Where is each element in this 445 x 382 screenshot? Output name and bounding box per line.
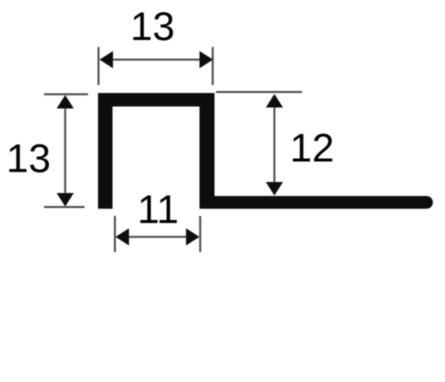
- svg-text:12: 12: [290, 127, 335, 171]
- svg-text:11: 11: [137, 188, 179, 232]
- svg-text:13: 13: [130, 5, 175, 49]
- svg-text:13: 13: [6, 137, 51, 181]
